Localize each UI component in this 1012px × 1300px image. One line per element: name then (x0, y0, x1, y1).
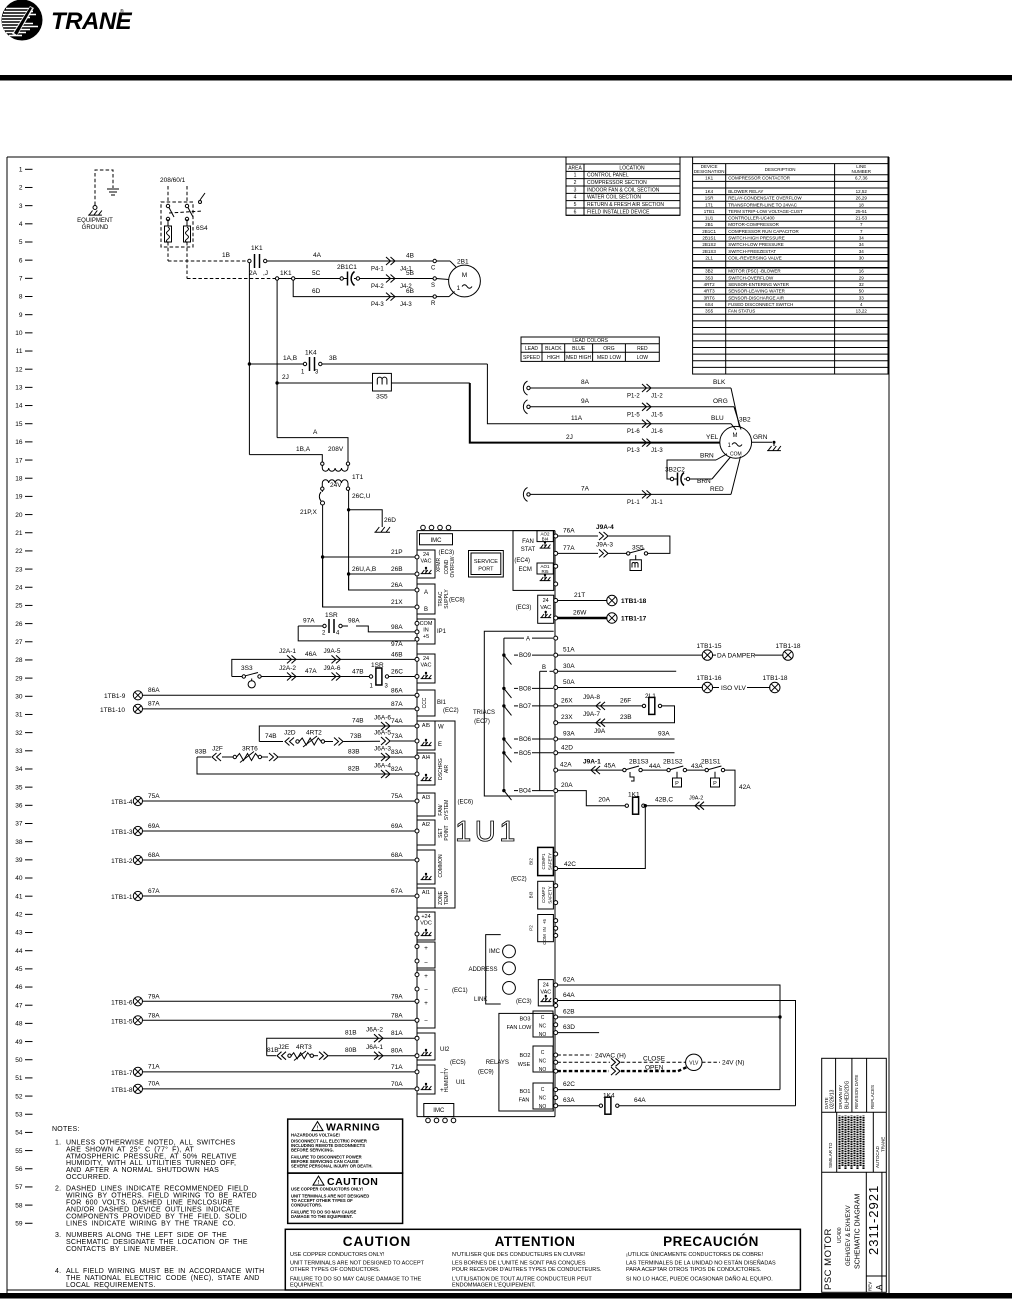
wire 46A (232, 648, 415, 677)
terminal C (431, 259, 456, 271)
svg-text:−: − (424, 1018, 428, 1025)
right terminals (554, 534, 558, 1108)
svg-text:ATMOSPHERIC PRESSURE, AT 50% R: ATMOSPHERIC PRESSURE, AT 50% RELATIVE (66, 1153, 237, 1160)
terminal box AI4 (417, 753, 450, 785)
svg-text:J6A-1: J6A-1 (366, 1044, 383, 1051)
svg-text:OCCURRED.: OCCURRED. (66, 1174, 111, 1181)
svg-text:NO: NO (539, 1067, 547, 1073)
contact 1K1 line6 (248, 245, 267, 268)
svg-text:IMC: IMC (431, 538, 443, 544)
triac BO6 (502, 737, 553, 749)
svg-text:4: 4 (19, 221, 23, 228)
svg-text:REV: REV (868, 1282, 873, 1291)
svg-text:1TB1-10: 1TB1-10 (100, 707, 125, 714)
transformer 1T1 (321, 462, 364, 490)
triac gate rail A (504, 636, 553, 790)
svg-text:1TB1-18: 1TB1-18 (776, 643, 801, 650)
svg-text:47: 47 (15, 1002, 23, 1009)
svg-text:1A,B: 1A,B (283, 355, 297, 362)
terminal box AI2 (417, 820, 450, 845)
svg-text:EQUIPMENT.: EQUIPMENT. (290, 1283, 324, 1289)
svg-text:P1-3: P1-3 (627, 448, 640, 454)
svg-text:LOCATION: LOCATION (619, 165, 645, 171)
svg-text:79A: 79A (391, 993, 403, 1000)
svg-text:68A: 68A (391, 852, 403, 859)
svg-text:02/26/13: 02/26/13 (830, 1089, 836, 1109)
svg-text:FUSED DISCONNECT SWITCH: FUSED DISCONNECT SWITCH (728, 302, 793, 307)
svg-text:42A: 42A (560, 762, 572, 769)
svg-text:RELAY-CONDENSATE OVERFLOW: RELAY-CONDENSATE OVERFLOW (728, 196, 802, 201)
svg-text:UI2: UI2 (440, 1047, 450, 1053)
terminal box 24VAC 2 (417, 654, 435, 683)
wire rail 2A,J (277, 280, 348, 462)
svg-text:SYSTEM: SYSTEM (444, 800, 450, 821)
svg-text:2.: 2. (55, 1186, 61, 1193)
svg-text:SIMILAR TO: SIMILAR TO (828, 1142, 833, 1168)
svg-text:3.: 3. (55, 1232, 61, 1239)
svg-text:86A: 86A (148, 687, 160, 694)
svg-text:50: 50 (15, 1057, 23, 1064)
svg-text:93A: 93A (563, 731, 575, 738)
svg-text:TEMP: TEMP (444, 890, 450, 905)
svg-text:J6A-5: J6A-5 (374, 730, 391, 737)
svg-text:33: 33 (15, 748, 23, 755)
svg-text:1TB1-9: 1TB1-9 (104, 693, 126, 700)
svg-text:CLOSE: CLOSE (643, 1056, 666, 1063)
svg-text:IMC: IMC (489, 949, 501, 955)
svg-text:74B: 74B (265, 733, 277, 740)
svg-text:26U,A,B: 26U,A,B (352, 566, 376, 573)
svg-text:7A: 7A (581, 486, 590, 493)
svg-text:COM: COM (420, 621, 433, 627)
fused disconnect switch 6S4 (160, 177, 208, 279)
svg-text:DESCRIPTION: DESCRIPTION (765, 167, 796, 172)
svg-text:DRAWN BY: DRAWN BY (838, 1085, 843, 1109)
svg-text:42A: 42A (739, 784, 751, 791)
svg-text:45A: 45A (604, 763, 616, 770)
wire 47A 47B coil 1SR (261, 662, 415, 690)
svg-text:IP1: IP1 (437, 629, 447, 635)
svg-text:20: 20 (15, 512, 23, 519)
svg-text:FAN: FAN (522, 539, 534, 545)
motor 3B2 blower (720, 417, 752, 459)
svg-text:B: B (542, 665, 546, 671)
contact 1K4 line12 (248, 350, 322, 376)
svg-text:21T: 21T (574, 592, 585, 599)
svg-text:26,29: 26,29 (856, 196, 868, 201)
svg-text:78A: 78A (391, 1012, 403, 1019)
svg-text:42D: 42D (561, 744, 573, 751)
svg-text:1T1: 1T1 (352, 474, 364, 481)
svg-text:BI4: BI4 (542, 537, 549, 542)
svg-text:(EC9): (EC9) (478, 1070, 494, 1076)
svg-text:3B2: 3B2 (739, 417, 751, 424)
relay BO3 fan low (507, 1011, 553, 1038)
terminal box UI1 (417, 1065, 466, 1094)
svg-text:22: 22 (15, 548, 23, 555)
svg-text:56: 56 (15, 1166, 23, 1173)
svg-text:70A: 70A (391, 1081, 403, 1088)
svg-text:2B1S2: 2B1S2 (702, 242, 716, 247)
svg-text:26F: 26F (620, 697, 631, 704)
svg-text:+5: +5 (542, 918, 547, 924)
wire 24VAC H (557, 1052, 626, 1059)
svg-text:SWITCH-LOW PRESSURE: SWITCH-LOW PRESSURE (728, 242, 784, 247)
node 2J (275, 374, 372, 385)
svg-text:30: 30 (15, 693, 23, 700)
terminal box triac supply (417, 584, 465, 614)
svg-text:97A: 97A (391, 641, 403, 648)
svg-text:73A: 73A (391, 733, 403, 740)
svg-text:BO5: BO5 (519, 751, 532, 757)
svg-text:5: 5 (19, 239, 23, 246)
wire 8A (523, 379, 739, 427)
svg-text:GEH/GEV & EXH/EXV: GEH/GEV & EXH/EXV (846, 1205, 852, 1266)
svg-text:+: + (424, 945, 428, 952)
svg-text:44A: 44A (649, 763, 661, 770)
svg-text:9A: 9A (581, 398, 590, 405)
svg-text:WATER COIL SECTION: WATER COIL SECTION (587, 195, 641, 201)
svg-text:A: A (875, 1284, 884, 1290)
svg-text:2: 2 (19, 185, 23, 192)
svg-text:3S5: 3S5 (376, 394, 388, 401)
svg-text:11A: 11A (571, 415, 583, 422)
svg-text:(EC1): (EC1) (452, 988, 468, 994)
svg-text:PARA ACEPTAR OTROS TIPOS DE CO: PARA ACEPTAR OTROS TIPOS DE CONDUCTORES. (626, 1267, 762, 1273)
svg-text:P4-1: P4-1 (371, 267, 384, 273)
svg-text:J6A-2: J6A-2 (366, 1027, 383, 1034)
svg-text:23X: 23X (561, 714, 573, 721)
svg-text:J2A-1: J2A-1 (279, 648, 296, 655)
svg-text:1U1: 1U1 (705, 216, 714, 221)
svg-text:97A: 97A (303, 618, 315, 625)
wire 81B (267, 1027, 415, 1056)
svg-text:1SR: 1SR (705, 196, 715, 201)
svg-text:AI3: AI3 (422, 795, 430, 801)
svg-text:3B2: 3B2 (705, 269, 714, 274)
svg-text:COMPRESSOR SECTION: COMPRESSOR SECTION (587, 180, 647, 186)
svg-text:87A: 87A (148, 701, 160, 708)
analog group box (417, 721, 455, 908)
svg-text:39: 39 (15, 857, 23, 864)
svg-text:63A: 63A (563, 1097, 575, 1104)
svg-text:75A: 75A (148, 793, 160, 800)
notes text (52, 1126, 264, 1289)
svg-text:74A: 74A (391, 718, 403, 725)
svg-text:COIL-REVERSING VALVE: COIL-REVERSING VALVE (728, 255, 782, 260)
svg-text:C: C (541, 1015, 545, 1021)
svg-text:2B1S1: 2B1S1 (702, 236, 716, 241)
thermistor 4RT2 (259, 730, 415, 748)
svg-text:1TB1-8: 1TB1-8 (111, 1087, 133, 1094)
svg-text:10: 10 (15, 330, 23, 337)
svg-text:+24: +24 (421, 914, 430, 920)
svg-text:COM: COM (542, 934, 547, 945)
svg-text:NUMBER: NUMBER (852, 169, 872, 174)
svg-text:4RT3: 4RT3 (704, 289, 715, 294)
svg-text:VAC: VAC (421, 662, 432, 668)
svg-text:34: 34 (15, 766, 23, 773)
svg-text:26D: 26D (384, 517, 396, 524)
svg-text:52: 52 (15, 1093, 23, 1100)
svg-text:67A: 67A (148, 888, 160, 895)
svg-text:J2D: J2D (284, 730, 296, 737)
terminal box AI5 (417, 721, 444, 750)
svg-text:40: 40 (15, 875, 23, 882)
svg-text:RETURN & FRESH AIR SECTION: RETURN & FRESH AIR SECTION (587, 202, 664, 208)
svg-text:24VAC (H): 24VAC (H) (595, 1052, 626, 1059)
wire open VLV (557, 1064, 687, 1075)
svg-text:26X: 26X (561, 697, 573, 704)
svg-text:(EC2): (EC2) (511, 877, 527, 883)
svg-text:DAMAGE TO THE EQUIPMENT.: DAMAGE TO THE EQUIPMENT. (291, 1214, 353, 1219)
svg-text:BI2: BI2 (529, 858, 534, 865)
svg-text:WSE: WSE (518, 1062, 531, 1068)
svg-text:J2A-2: J2A-2 (279, 665, 296, 672)
svg-text:PORT: PORT (478, 567, 494, 573)
svg-text:2B1C1: 2B1C1 (702, 229, 716, 234)
svg-text:1: 1 (19, 167, 23, 174)
svg-text:50: 50 (859, 289, 865, 294)
svg-text:E: E (438, 742, 442, 748)
header bar (0, 75, 1012, 81)
wire 3B (322, 355, 520, 424)
svg-text:LEAD COLORS: LEAD COLORS (572, 338, 608, 344)
svg-text:BLUE: BLUE (572, 346, 586, 352)
svg-text:32: 32 (15, 730, 23, 737)
terminal box IMC link (417, 942, 501, 968)
svg-text:27: 27 (15, 639, 23, 646)
svg-text:SENSOR-ENTERING WATER: SENSOR-ENTERING WATER (728, 282, 790, 287)
svg-text:(EC8): (EC8) (449, 598, 465, 604)
svg-text:2B1S2: 2B1S2 (663, 759, 683, 766)
svg-text:46B: 46B (391, 651, 403, 658)
capacitor 3B2C2 BRN loop (665, 453, 731, 486)
wire 2A (187, 270, 275, 279)
svg-text:J9A-1: J9A-1 (583, 759, 601, 766)
svg-text:SENSOR-DISCHARGE AIR: SENSOR-DISCHARGE AIR (728, 295, 785, 300)
wire rail 21P,X (322, 505, 324, 607)
svg-text:76A: 76A (563, 528, 575, 535)
svg-text:82B: 82B (348, 766, 360, 773)
svg-text:POUR RECEVOIR D'AUTRES TYPES D: POUR RECEVOIR D'AUTRES TYPES DE CONDUCTE… (452, 1267, 602, 1273)
svg-text:6B: 6B (406, 288, 414, 295)
svg-text:BO7: BO7 (519, 704, 532, 710)
svg-text:CONTROL PANEL: CONTROL PANEL (587, 173, 629, 179)
svg-text:33: 33 (859, 295, 865, 300)
terminal R (431, 292, 455, 308)
svg-text:1TB1-15: 1TB1-15 (697, 643, 722, 650)
svg-text:J9A-4: J9A-4 (596, 524, 614, 531)
svg-text:67A: 67A (391, 888, 403, 895)
svg-text:74B: 74B (352, 718, 364, 725)
svg-text:LEAD: LEAD (525, 346, 538, 352)
svg-text:64A: 64A (563, 992, 575, 999)
svg-text:PSC MOTOR: PSC MOTOR (823, 1228, 834, 1290)
svg-text:26B: 26B (391, 566, 403, 573)
svg-text:IN: IN (423, 627, 429, 633)
svg-text:6S4: 6S4 (705, 302, 714, 307)
svg-text:16: 16 (859, 269, 865, 274)
svg-text:80B: 80B (345, 1047, 357, 1054)
svg-text:UC400: UC400 (837, 1227, 843, 1243)
svg-text:18: 18 (15, 475, 23, 482)
svg-text:2B1: 2B1 (705, 222, 714, 227)
wire 87A (100, 701, 415, 714)
svg-text:4RT3: 4RT3 (296, 1044, 312, 1051)
svg-text:ORG: ORG (713, 398, 728, 405)
IMC box bottom (424, 1104, 456, 1123)
svg-text:30: 30 (859, 255, 865, 260)
svg-text:21P: 21P (391, 549, 403, 556)
svg-text:50A: 50A (563, 679, 575, 686)
svg-text:1TB1-3: 1TB1-3 (111, 829, 133, 836)
wire 70A (111, 1081, 415, 1094)
svg-text:+: + (424, 973, 428, 980)
svg-text:5C: 5C (312, 270, 321, 277)
svg-text:J9A-7: J9A-7 (583, 711, 600, 718)
svg-text:1.: 1. (55, 1139, 61, 1146)
wire 30A (557, 663, 676, 672)
wire 74B (259, 715, 415, 742)
svg-text:1TB1-18: 1TB1-18 (763, 675, 788, 682)
svg-text:3RT6: 3RT6 (704, 295, 715, 300)
24VAC EC3 box mid (516, 595, 554, 623)
svg-text:P1-2: P1-2 (627, 394, 640, 400)
svg-text:PRECAUCIÓN: PRECAUCIÓN (663, 1234, 759, 1249)
svg-text:1B,A: 1B,A (296, 446, 311, 453)
caution attention precaucion panel (285, 1229, 800, 1290)
svg-text:4B: 4B (406, 253, 414, 260)
svg-text:W: W (438, 725, 444, 731)
service port box (469, 551, 504, 578)
thermistor 3RT6 (195, 746, 415, 763)
svg-text:2311-2921: 2311-2921 (866, 1185, 881, 1255)
wire 62C (557, 1081, 780, 1090)
line number column (15, 167, 32, 1228)
svg-text:CONDUCTORS.: CONDUCTORS. (291, 1202, 322, 1207)
terminal box COMMON (417, 850, 444, 884)
svg-text:57: 57 (15, 1184, 23, 1191)
svg-text:1K4: 1K4 (603, 1093, 615, 1100)
svg-text:30A: 30A (563, 663, 575, 670)
svg-text:ATTENTION: ATTENTION (495, 1234, 576, 1249)
svg-text:BEFORE SERVICING.: BEFORE SERVICING. (291, 1147, 334, 1152)
24VAC EC3 box low (516, 980, 553, 1006)
triacs enclosure (473, 631, 554, 796)
drawing frame (7, 157, 889, 1293)
wire 26A (349, 574, 415, 590)
svg-text:−: − (424, 987, 428, 994)
svg-text:71A: 71A (148, 1064, 160, 1071)
wire 78A (111, 1012, 415, 1025)
svg-text:3: 3 (19, 203, 23, 210)
svg-text:82A: 82A (391, 766, 403, 773)
svg-text:ARE SHOWN AT 25° C (77° F), AT: ARE SHOWN AT 25° C (77° F), AT (66, 1145, 194, 1153)
svg-text:S: S (431, 283, 435, 289)
svg-text:RI5: RI5 (541, 569, 549, 574)
svg-text:4RT2: 4RT2 (306, 730, 322, 737)
svg-text:FAN: FAN (519, 1098, 530, 1104)
svg-text:73B: 73B (350, 733, 362, 740)
svg-text:24: 24 (423, 656, 429, 662)
svg-text:A: A (424, 590, 428, 596)
wire 68A (111, 852, 415, 865)
wire 21P (321, 549, 415, 559)
svg-text:FAN STATUS: FAN STATUS (728, 309, 755, 314)
controller U1 outline (417, 531, 555, 1117)
svg-text:75A: 75A (391, 793, 403, 800)
terminal box +24VDC (417, 912, 435, 940)
svg-text:¡UTILICE ÚNICAMENTE CONDUCTORE: ¡UTILICE ÚNICAMENTE CONDUCTORES DE COBRE… (626, 1251, 764, 1258)
svg-text:3RT6: 3RT6 (242, 746, 258, 753)
svg-text:RED: RED (637, 346, 648, 352)
svg-text:98A: 98A (391, 624, 403, 631)
svg-text:1: 1 (574, 173, 577, 179)
svg-text:5: 5 (574, 202, 577, 208)
svg-text:BLU: BLU (711, 415, 724, 422)
svg-text:J9A-3: J9A-3 (596, 542, 613, 549)
svg-text:SENSOR-LEAVING WATER: SENSOR-LEAVING WATER (728, 289, 785, 294)
fan status switch 3S5 (373, 373, 392, 400)
svg-text:J6A-3: J6A-3 (374, 746, 391, 753)
svg-text:LOCAL REQUIREMENTS.: LOCAL REQUIREMENTS. (66, 1282, 156, 1289)
svg-text:P1-6: P1-6 (627, 429, 640, 435)
svg-text:34: 34 (859, 242, 865, 247)
wire 51A DA DAMPER (557, 643, 800, 660)
svg-text:(EC7): (EC7) (474, 719, 490, 725)
svg-text:WIRING BY OTHERS. FIELD WIRIN: WIRING BY OTHERS. FIELD WIRING TO BE RAT… (66, 1193, 257, 1200)
svg-text:IN: IN (542, 927, 547, 932)
svg-text:TERM STRIP-LOW VOLTAGE-CUST: TERM STRIP-LOW VOLTAGE-CUST (728, 209, 803, 214)
svg-text:1TB1-2: 1TB1-2 (111, 858, 133, 865)
svg-text:SWITCH-FREEZESTAT: SWITCH-FREEZESTAT (728, 249, 776, 254)
svg-text:MED HIGH: MED HIGH (566, 355, 591, 361)
svg-text:11: 11 (16, 348, 23, 355)
svg-text:15: 15 (15, 421, 23, 428)
wire 9A (523, 398, 741, 430)
svg-text:REPLACES: REPLACES (870, 1085, 875, 1109)
svg-text:FIELD INSTALLED DEVICE: FIELD INSTALLED DEVICE (587, 209, 650, 215)
svg-text:RED: RED (710, 486, 724, 493)
svg-text:VLV: VLV (689, 1061, 699, 1067)
svg-text:2: 2 (574, 180, 577, 186)
svg-text:OPEN: OPEN (645, 1064, 664, 1071)
svg-text:3S5: 3S5 (632, 545, 644, 552)
svg-text:1TB1-16: 1TB1-16 (697, 675, 722, 682)
svg-text:COM: COM (730, 452, 742, 458)
svg-text:J1-3: J1-3 (651, 448, 663, 454)
svg-text:58: 58 (15, 1202, 23, 1209)
svg-text:25: 25 (15, 603, 23, 610)
svg-text:J1-1: J1-1 (651, 500, 663, 506)
svg-text:24: 24 (543, 983, 549, 989)
svg-text:47A: 47A (305, 668, 317, 675)
comp1 safety box (511, 847, 553, 882)
svg-text:C: C (431, 266, 436, 272)
svg-text:P: P (713, 781, 717, 787)
svg-text:HUMIDITY, WITH ALL UTILITIES T: HUMIDITY, WITH ALL UTILITIES TURNED OFF, (66, 1160, 236, 1167)
svg-text:1T1: 1T1 (705, 202, 713, 207)
svg-text:NO: NO (539, 1032, 547, 1038)
svg-text:54: 54 (15, 1130, 23, 1137)
svg-text:79A: 79A (148, 993, 160, 1000)
svg-text:®: ® (120, 8, 124, 15)
wire 6D (293, 280, 433, 308)
svg-text:OVRFLW: OVRFLW (450, 556, 456, 577)
svg-text:SAFETY: SAFETY (548, 886, 553, 904)
svg-text:BLACK: BLACK (545, 346, 562, 352)
